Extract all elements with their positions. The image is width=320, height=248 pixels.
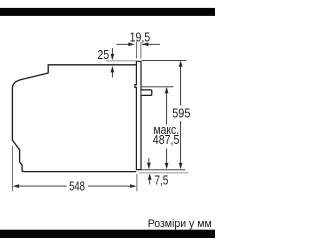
grey niche line (bottom right) (139, 172, 189, 174)
dimension 595: top extension line (142, 59, 187, 61)
dimension 19,5 extension lines (136, 42, 138, 59)
dimension 19,5 lines and arrows (116, 42, 159, 46)
svg-text:595: 595 (172, 105, 190, 120)
dimension 548: left extension line (11, 146, 13, 191)
svg-text:548: 548 (69, 179, 85, 194)
grey niche line (top, left of front panel) (106, 60, 137, 62)
svg-text:Розміри у мм: Розміри у мм (148, 218, 212, 230)
bottom black bar (0, 230, 215, 238)
dimension 548 line and arrows (13, 184, 137, 188)
dimension 25 arrows (111, 48, 115, 78)
dimension 7,5 arrows (147, 158, 152, 185)
svg-text:19,5: 19,5 (130, 30, 151, 45)
dimension макс. 487,5: top extension line (142, 86, 174, 88)
oven body outline (12, 65, 136, 172)
top black bar (0, 8, 215, 16)
svg-text:487,5: 487,5 (153, 132, 180, 147)
dimension макс. 487,5 line and arrows (165, 87, 169, 170)
dimension 595 line and arrows (179, 60, 183, 169)
door handle (141, 90, 151, 96)
dimension 595: bottom extension line (142, 169, 186, 171)
front panel (135, 61, 141, 169)
svg-text:7,5: 7,5 (154, 172, 168, 187)
dimension 548: right extension line (136, 174, 138, 191)
svg-text:25: 25 (97, 47, 109, 62)
